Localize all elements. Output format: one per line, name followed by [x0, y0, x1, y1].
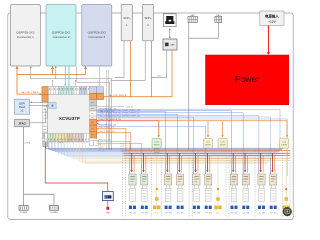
svg-text:GA_CTRL_PWR_S: GA_CTRL_PWR_S — [109, 94, 127, 97]
svg-text:JTAG: JTAG — [18, 122, 26, 126]
svg-text:Power: Power — [235, 74, 259, 84]
svg-text:DRVR: DRVR — [281, 145, 287, 147]
svg-text:Connector 3: Connector 3 — [88, 35, 105, 39]
svg-text:DRVR: DRVR — [205, 145, 211, 147]
svg-text:CLK: CLK — [282, 141, 287, 143]
svg-text:PGA_SYNC1_CN: PGA_SYNC1_CN — [99, 110, 115, 113]
svg-text:POWER: POWER — [50, 212, 58, 214]
svg-text:GA_CT: GA_CT — [99, 144, 106, 147]
svg-text:PGA_VCCINT_PG: PGA_VCCINT_PG — [99, 126, 115, 129]
svg-text:LINE_A: LINE_A — [126, 106, 133, 109]
svg-text:电源输入: 电源输入 — [265, 13, 279, 18]
svg-text:XCVU37P: XCVU37P — [59, 116, 80, 121]
svg-text:POWER: POWER — [20, 212, 28, 214]
svg-text:CLK: CLK — [221, 141, 226, 143]
svg-text:DRVR: DRVR — [220, 145, 226, 147]
svg-text:SFP+: SFP+ — [123, 16, 130, 20]
svg-text:QSFP28-2X2: QSFP28-2X2 — [52, 31, 71, 35]
svg-text:PGA_VCCAUX_PG: PGA_VCCAUX_PG — [99, 130, 115, 133]
svg-text:Flash: Flash — [19, 105, 26, 109]
svg-text:88E: 88E — [171, 45, 175, 47]
svg-text:GA_CTRL_PWR_S: GA_CTRL_PWR_S — [21, 91, 39, 94]
svg-text:QSFP28-2X2: QSFP28-2X2 — [16, 31, 35, 35]
svg-text:LINE A: LINE A — [58, 141, 64, 144]
svg-text:+12V: +12V — [268, 20, 276, 24]
svg-text:LINE A: LINE A — [25, 142, 31, 145]
svg-text:CLK: CLK — [155, 141, 160, 143]
svg-text:Connector 2: Connector 2 — [53, 35, 70, 39]
svg-text:QSFP28-2X2: QSFP28-2X2 — [88, 31, 107, 35]
svg-text:PGA_REFCLK1_CN: PGA_REFCLK1_CN — [99, 124, 117, 127]
svg-text:SFP+: SFP+ — [144, 16, 151, 20]
svg-text:DRVR: DRVR — [154, 145, 160, 147]
svg-text:PGA_SCL_CN: PGA_SCL_CN — [99, 139, 112, 142]
svg-text:QSPI: QSPI — [19, 101, 25, 105]
svg-text:PGA_CTRL_SYSCLK_CN: PGA_CTRL_SYSCLK_CN — [99, 118, 122, 121]
svg-text:Connector 1: Connector 1 — [17, 35, 34, 39]
svg-text:CLK: CLK — [206, 141, 211, 143]
